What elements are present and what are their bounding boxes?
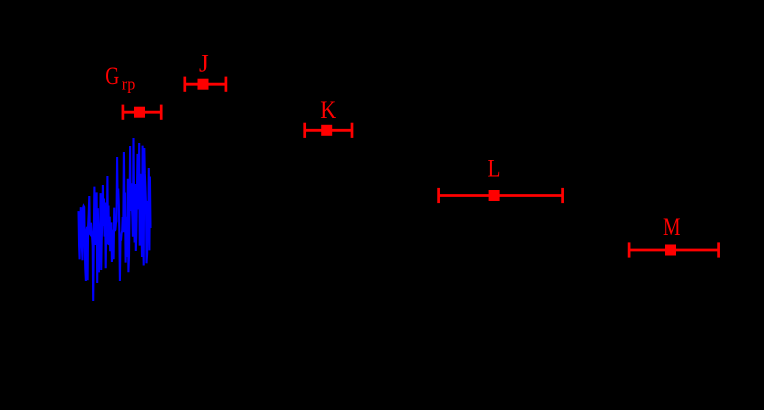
errorbar K <box>305 123 352 138</box>
blue spectrum curve <box>79 138 151 301</box>
svg-text:G: G <box>105 63 119 90</box>
errorbar L <box>439 188 563 203</box>
errorbar J <box>185 77 226 92</box>
errorbar Grp <box>123 105 161 120</box>
svg-text:J: J <box>199 50 209 77</box>
svg-text:L: L <box>488 155 501 182</box>
svg-text:K: K <box>320 97 336 124</box>
svg-text:rp: rp <box>122 75 136 94</box>
svg-text:M: M <box>663 214 681 241</box>
errorbar M <box>629 242 719 257</box>
